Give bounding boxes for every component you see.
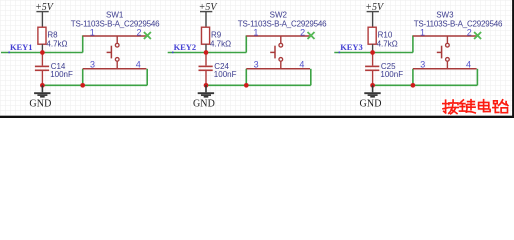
net label KEY1: [8, 42, 32, 53]
svg-text:4: 4: [466, 59, 471, 69]
svg-text:GND: GND: [193, 98, 215, 109]
switch SW1 TS-1103S-B-A_C2929546: [71, 11, 160, 69]
svg-text:4.7kΩ: 4.7kΩ: [377, 39, 398, 48]
svg-text:100nF: 100nF: [380, 70, 403, 79]
svg-text:2: 2: [300, 27, 305, 37]
svg-text:GND: GND: [360, 98, 382, 109]
wire net KEY2: [168, 52, 247, 54]
svg-text:3: 3: [420, 59, 425, 69]
no-connect flag on pin 2 (SW2): [308, 32, 315, 39]
svg-text:TS-1103S-B-A_C2929546: TS-1103S-B-A_C2929546: [71, 19, 160, 28]
net label KEY2: [172, 42, 196, 53]
svg-text:GND: GND: [29, 98, 51, 109]
wire drop from switch pin 4: [146, 69, 148, 86]
svg-text:TS-1103S-B-A_C2929546: TS-1103S-B-A_C2929546: [414, 19, 503, 28]
junction node KEY1: [40, 50, 45, 55]
wire riser to switch pin 1: [412, 35, 414, 52]
ground symbol GND (circuit 2): [193, 85, 215, 109]
net label KEY3: [339, 42, 363, 53]
junction node KEY2: [204, 50, 209, 55]
power flag +5V (circuit 3): [365, 2, 385, 28]
svg-text:R9: R9: [211, 31, 222, 40]
svg-text:4: 4: [299, 59, 304, 69]
svg-text:1: 1: [420, 27, 425, 37]
svg-text:KEY1: KEY1: [10, 42, 32, 52]
power flag +5V (circuit 1): [35, 2, 55, 28]
wire riser to switch pin 1: [245, 35, 247, 52]
svg-text:100nF: 100nF: [50, 70, 73, 79]
svg-text:R8: R8: [47, 31, 58, 40]
wire drop from switch pin 3: [82, 69, 84, 86]
svg-text:SW3: SW3: [436, 11, 454, 20]
resistor R8 4.7k: [38, 27, 68, 52]
svg-text:1: 1: [253, 27, 258, 37]
svg-text:2: 2: [136, 27, 141, 37]
wire riser to switch pin 1: [82, 35, 84, 52]
wire net KEY1: [1, 52, 83, 54]
power flag +5V (circuit 2): [199, 2, 219, 28]
svg-text:1: 1: [90, 27, 95, 37]
svg-text:3: 3: [254, 59, 259, 69]
wire GND net: [373, 84, 478, 86]
svg-text:100nF: 100nF: [214, 70, 237, 79]
svg-text:4.7kΩ: 4.7kΩ: [210, 39, 231, 48]
svg-text:SW2: SW2: [270, 11, 288, 20]
ground symbol GND (circuit 3): [360, 85, 382, 109]
svg-text:4.7kΩ: 4.7kΩ: [46, 39, 67, 48]
junction node KEY3: [370, 50, 375, 55]
switch SW3 TS-1103S-B-A_C2929546: [413, 11, 503, 69]
wire net KEY3: [334, 52, 413, 54]
switch SW2 TS-1103S-B-A_C2929546: [238, 11, 327, 69]
junction node GND at capacitor: [40, 83, 45, 88]
wire drop from switch pin 4: [476, 69, 478, 86]
svg-text:R10: R10: [378, 31, 393, 40]
capacitor C25 100nF: [365, 53, 403, 86]
resistor R9 4.7k: [202, 27, 232, 52]
wire drop from switch pin 3: [412, 69, 414, 86]
resistor R10 4.7k: [368, 27, 398, 52]
junction node GND at capacitor: [370, 83, 375, 88]
wire GND net: [42, 84, 147, 86]
ground symbol GND (circuit 1): [29, 85, 51, 109]
svg-text:KEY2: KEY2: [174, 42, 196, 52]
junction switch pin 3 to GND: [80, 83, 85, 88]
no-connect flag on pin 2 (SW1): [144, 32, 151, 39]
junction switch pin 3 to GND: [244, 83, 249, 88]
svg-text:KEY3: KEY3: [340, 42, 362, 52]
svg-text:4: 4: [136, 59, 141, 69]
svg-text:TS-1103S-B-A_C2929546: TS-1103S-B-A_C2929546: [238, 19, 327, 28]
junction switch pin 3 to GND: [411, 83, 416, 88]
svg-text:3: 3: [90, 59, 95, 69]
wire GND net: [206, 84, 311, 86]
svg-text:SW1: SW1: [106, 11, 124, 20]
text label 按键电路 (key/button circuit title): [443, 100, 508, 114]
junction node GND at capacitor: [204, 83, 209, 88]
wire drop from switch pin 4: [310, 69, 312, 86]
wire drop from switch pin 3: [245, 69, 247, 86]
capacitor C14 100nF: [35, 53, 73, 86]
no-connect flag on pin 2 (SW3): [474, 32, 481, 39]
capacitor C24 100nF: [199, 53, 237, 86]
svg-text:2: 2: [467, 27, 472, 37]
